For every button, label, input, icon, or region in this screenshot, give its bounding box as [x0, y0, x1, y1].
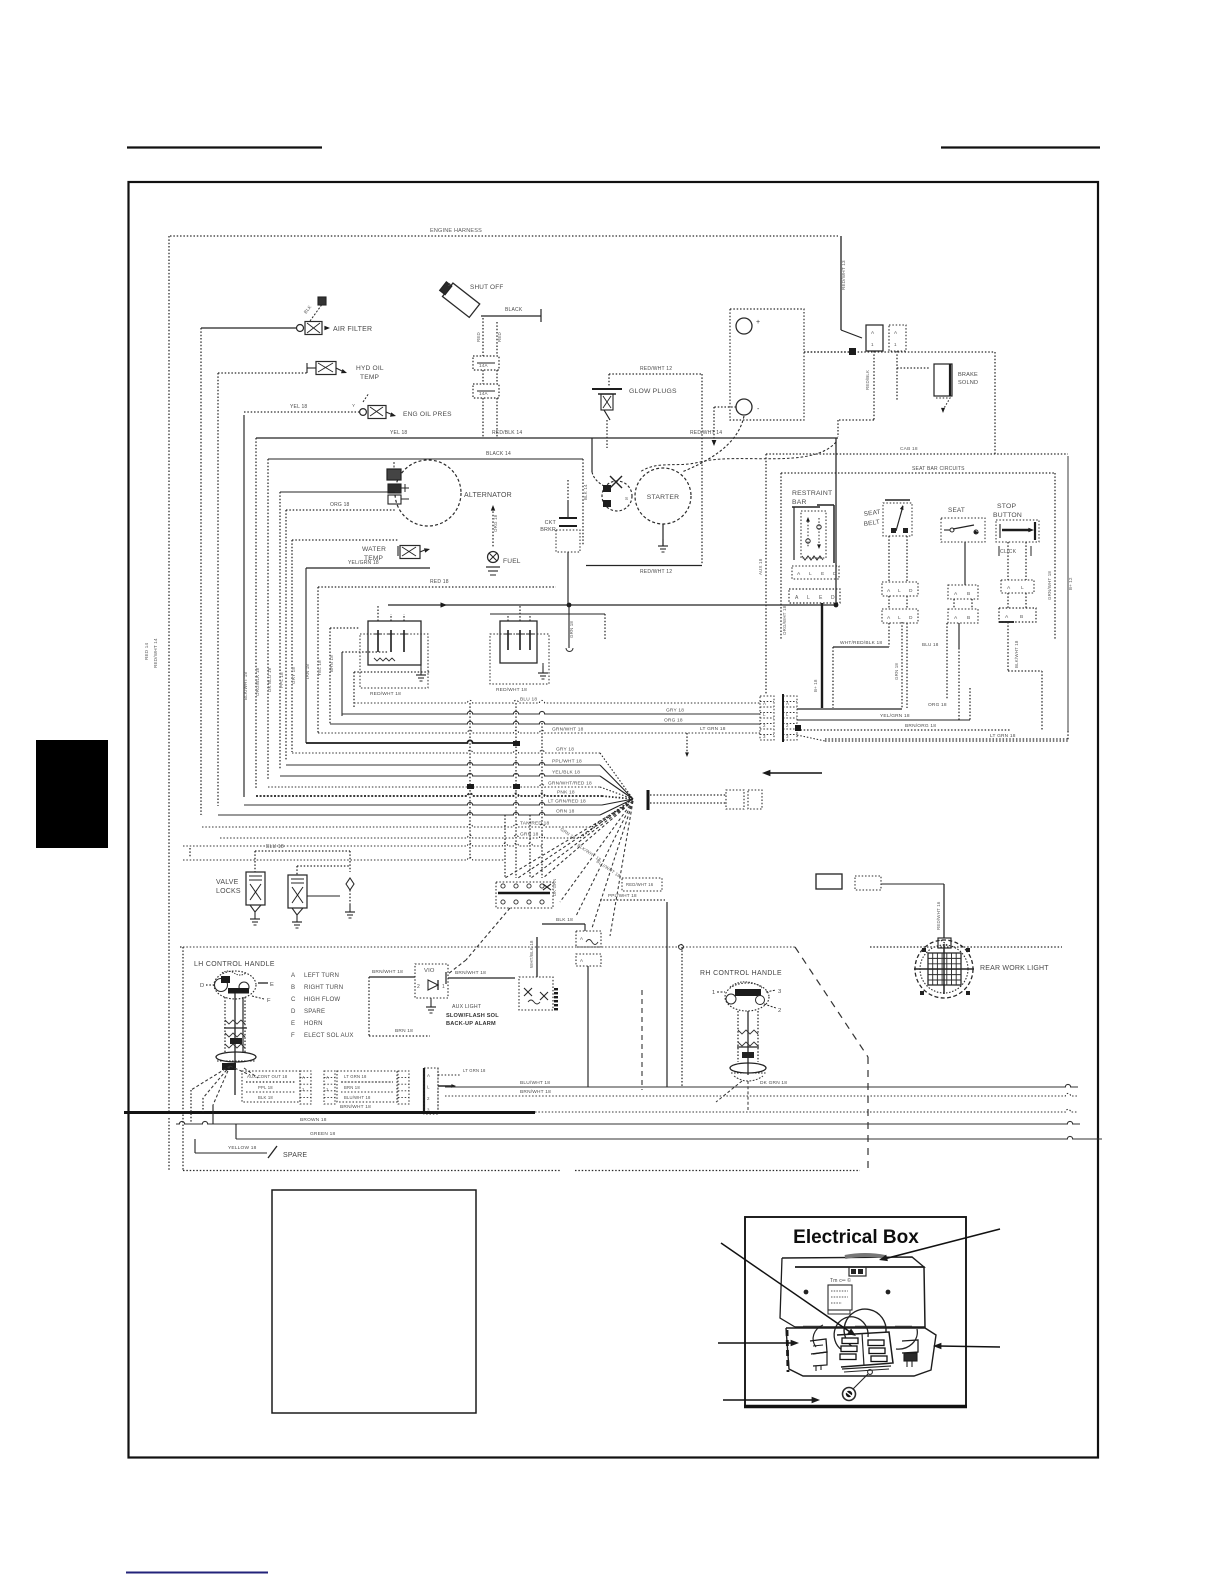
- svg-text:BRN/WHT 18: BRN/WHT 18: [372, 969, 403, 975]
- svg-text:B: B: [1020, 614, 1023, 620]
- wire: stop interlead: [1007, 593, 1009, 608]
- lamp: work light terminal: [938, 938, 951, 948]
- connector: LH plug P1: [300, 1071, 311, 1104]
- wire: harness bus row y743 ORG/BLK 14: [306, 740, 516, 743]
- note box: empty detail box: [272, 1190, 476, 1413]
- wire: water temp feed: [292, 539, 398, 541]
- joystick: LH control handle grip: [214, 971, 256, 999]
- svg-text:PPL/WHT 18: PPL/WHT 18: [608, 893, 637, 898]
- wire: brake solenoid drops: [873, 351, 875, 420]
- diode block: multi-diode assembly: [496, 882, 553, 908]
- svg-text:AUX CONT OUT 18: AUX CONT OUT 18: [247, 1074, 288, 1079]
- svg-text:D: D: [831, 595, 835, 601]
- svg-text:A: A: [954, 591, 958, 597]
- electrical box: lid latch connector: [849, 1267, 866, 1276]
- svg-text:L: L: [898, 615, 901, 621]
- svg-text:BRN 18: BRN 18: [329, 655, 334, 672]
- battery: negative terminal: [736, 399, 752, 415]
- svg-text:SHUT OFF: SHUT OFF: [470, 284, 503, 291]
- wire: row 860 dotted: [183, 857, 505, 860]
- svg-text:F: F: [267, 998, 271, 1004]
- svg-text:B: B: [967, 591, 970, 597]
- lamp: work light corner studs: [922, 948, 926, 952]
- svg-text:ELECT SOL AUX: ELECT SOL AUX: [304, 1032, 354, 1039]
- svg-text:DK GRN 18: DK GRN 18: [760, 1080, 787, 1086]
- svg-text:BRN/WHT 18: BRN/WHT 18: [340, 1104, 371, 1110]
- svg-text:PPL 18: PPL 18: [279, 672, 284, 688]
- connector: LH plug P2 ladder: [324, 1071, 335, 1104]
- svg-text:2: 2: [786, 723, 789, 728]
- svg-text:BRN 18: BRN 18: [395, 1028, 413, 1034]
- sender: FUEL level sender: [492, 508, 494, 548]
- arrow: harness location pointer: [766, 772, 822, 774]
- svg-text:RED/WHT 16: RED/WHT 16: [936, 901, 941, 930]
- wire: bus corner turn x342: [341, 652, 343, 716]
- svg-text:GRY 18: GRY 18: [556, 747, 574, 753]
- wire: VIO output BRN/WHT 18: [448, 977, 515, 979]
- wire: secondary run: [490, 613, 605, 615]
- wire: RH handle pin A tick: [445, 972, 447, 984]
- svg-text:SEAT BAR CIRCUITS: SEAT BAR CIRCUITS: [912, 466, 965, 472]
- connector: LH junction block: [337, 1071, 397, 1102]
- wire: seat belt interlead: [888, 596, 890, 609]
- switch: HYD OIL TEMP switch: [307, 367, 316, 369]
- svg-text:L: L: [898, 588, 901, 594]
- wire: harness bus row y714 GRY 18: [342, 711, 760, 714]
- wire: corner drop x470: [469, 837, 471, 860]
- wire: RH handle harness leads: [716, 1081, 742, 1102]
- svg-text:1: 1: [302, 1087, 305, 1092]
- connector: stop button plug 1: [1001, 580, 1034, 593]
- svg-text:GRN 18: GRN 18: [894, 663, 899, 680]
- svg-text:A: A: [427, 1073, 430, 1078]
- svg-text:TEMP: TEMP: [360, 374, 380, 381]
- svg-text:A: A: [887, 588, 891, 594]
- svg-text:14A: 14A: [479, 391, 489, 396]
- svg-text:B+ 18: B+ 18: [813, 679, 818, 692]
- wire: harness bus row y776 YEL/BLK 18: [280, 773, 600, 776]
- svg-text:L: L: [809, 571, 812, 577]
- arrow: pointer to lid latch: [884, 1229, 1000, 1259]
- wire: diode box feed: [536, 937, 538, 977]
- wire: relay K1 coil feeds: [377, 605, 379, 621]
- svg-text:BLK 18: BLK 18: [258, 1095, 273, 1100]
- svg-text:YEL 18: YEL 18: [390, 430, 407, 436]
- svg-text:1: 1: [871, 342, 874, 347]
- starter: solenoid: [602, 481, 632, 511]
- page border frame: [129, 182, 1099, 1458]
- wire: harness bus row y787 GRN/WHT/RED 18: [268, 784, 600, 787]
- svg-text:1: 1: [894, 342, 897, 347]
- svg-text:FUEL: FUEL: [503, 558, 521, 565]
- wire: valve lock sense line: [349, 851, 351, 872]
- wire: main B+ distribution run: [388, 604, 836, 606]
- electrical box: hinge strip: [803, 1326, 820, 1329]
- alternator: ALTERNATOR: [395, 460, 461, 526]
- ground: starter ground: [662, 524, 664, 546]
- wire: seat drop to YEL/GRN: [969, 688, 971, 720]
- svg-text:GRY 18: GRY 18: [291, 667, 296, 684]
- svg-text:E: E: [821, 571, 824, 577]
- svg-text:3: 3: [763, 734, 766, 739]
- joystick: RH control handle grip: [725, 983, 769, 1011]
- svg-text:BLU 18: BLU 18: [922, 642, 939, 647]
- svg-text:GREEN 18: GREEN 18: [310, 1131, 335, 1137]
- joystick: LH stem: [224, 997, 226, 1053]
- relay: glow plug relay K1: [368, 621, 421, 665]
- wire: row y1124 BROWN 18: [176, 1121, 1080, 1124]
- svg-text:+: +: [756, 319, 760, 326]
- connector: LH aux outlet block: [242, 1071, 300, 1102]
- wire: lower fan diagonals from accessory area: [505, 801, 633, 878]
- svg-text:2: 2: [448, 282, 451, 287]
- connector: seat plug 1: [948, 585, 978, 599]
- svg-text:BRAKE: BRAKE: [958, 372, 978, 378]
- svg-text:B+ 12: B+ 12: [1068, 577, 1073, 590]
- connector: horn connector lower: [576, 954, 601, 966]
- svg-text:A: A: [1005, 614, 1009, 620]
- wire: B+ feed into seat box: [835, 438, 837, 605]
- svg-text:TAN/RED 18: TAN/RED 18: [520, 821, 549, 827]
- wire: air filter feed: [201, 327, 296, 329]
- wire: top-left header rule: [127, 146, 322, 148]
- svg-text:RED/WHT 16: RED/WHT 16: [626, 882, 654, 887]
- svg-text:RED/BLK: RED/BLK: [865, 370, 870, 390]
- svg-text:ALTERNATOR: ALTERNATOR: [464, 492, 512, 499]
- connector: restraint bar plug 2: [789, 589, 840, 603]
- svg-text:RESTRAINT: RESTRAINT: [792, 490, 832, 497]
- svg-text:BRN/WHT 18: BRN/WHT 18: [455, 970, 486, 976]
- svg-text:STARTER: STARTER: [647, 494, 680, 501]
- wire: seat belt outputs: [888, 623, 890, 647]
- wire: row 846 dotted: [183, 843, 543, 846]
- connector: horn connector: [576, 931, 601, 947]
- svg-text:BROWN 18: BROWN 18: [300, 1117, 327, 1123]
- svg-text:A: A: [763, 701, 766, 706]
- svg-text:YEL 18: YEL 18: [290, 404, 307, 410]
- svg-text:BLK/WHT 18: BLK/WHT 18: [243, 672, 248, 700]
- electrical box: relay plug left: [810, 1339, 827, 1354]
- wire: seat outputs: [958, 623, 960, 648]
- fuse: F1 fuse link: [473, 356, 499, 370]
- svg-text:BRN/ORG 18: BRN/ORG 18: [905, 723, 936, 729]
- connector: accessory tap RED/WHT: [622, 878, 662, 891]
- svg-text:BLK 14: BLK 14: [583, 484, 588, 500]
- svg-text:GRN/WHT/RED 18: GRN/WHT/RED 18: [548, 781, 592, 787]
- battery: positive terminal: [736, 318, 752, 334]
- electrical box: ground screw and lead: [868, 1370, 873, 1375]
- svg-text:BLU 18: BLU 18: [520, 697, 537, 703]
- wire: air filter drop to bus: [200, 328, 202, 815]
- left margin section tab (solid black): [36, 740, 108, 848]
- wire: seat bar circuits inner box: [781, 472, 1055, 474]
- wire: spare lead YELLOW 18: [195, 1152, 267, 1154]
- electrical box: fuse block: [837, 1332, 893, 1367]
- wire: stop button leads: [1007, 542, 1009, 580]
- svg-text:AUX 18: AUX 18: [758, 558, 763, 575]
- ground: VIO module ground: [430, 998, 432, 1002]
- arrow: pointer to right plug: [938, 1346, 1000, 1347]
- wire: engine harness right vertical RED/WHT: [840, 236, 842, 330]
- wire: horn ground drop: [587, 966, 589, 1087]
- svg-text:Y: Y: [352, 403, 355, 408]
- arrow: pointer to left plug: [718, 1342, 794, 1344]
- node: C2 pin junction: [795, 725, 801, 731]
- wire: stop button outputs: [1007, 622, 1009, 671]
- svg-text:ENGINE HARNESS: ENGINE HARNESS: [430, 228, 482, 234]
- svg-text:DK BLU 18: DK BLU 18: [267, 667, 272, 692]
- svg-text:ORG/BLK 18: ORG/BLK 18: [255, 667, 260, 696]
- inset: Electrical Box frame: [745, 1217, 966, 1406]
- wire: fuse drops to B+ line: [482, 398, 484, 438]
- solenoid: FUEL SHUT OFF: [438, 279, 480, 317]
- battery: battery box: [730, 309, 804, 420]
- wire: fan convergence into main connector: [600, 753, 633, 799]
- diode: VIO diode module: [415, 964, 448, 998]
- connector: engine/cab bulkhead plug A: [866, 325, 883, 351]
- svg-text:2: 2: [417, 984, 420, 990]
- svg-text:BACK-UP ALARM: BACK-UP ALARM: [446, 1021, 496, 1027]
- svg-text:A: A: [580, 936, 583, 941]
- connector: seat belt plug 1: [882, 582, 918, 596]
- wire: hyd oil temp feed: [218, 372, 307, 374]
- electrical box: lid screws: [804, 1290, 809, 1295]
- wire: engine harness boundary left: [168, 236, 170, 1112]
- wire: starter B+ vertical: [591, 438, 593, 472]
- svg-text:RED/BLK 14: RED/BLK 14: [492, 430, 522, 436]
- wire: bus corner turn x354: [353, 672, 355, 707]
- connector: seat belt plug 2: [882, 609, 918, 623]
- wire: glow box left edge: [608, 374, 610, 387]
- svg-text:1: 1: [712, 990, 715, 996]
- svg-text:HIGH FLOW: HIGH FLOW: [304, 996, 340, 1003]
- wire: fuel gauge dotted feed: [318, 586, 556, 588]
- svg-text:A: A: [797, 571, 801, 577]
- svg-text:LT GRN/RED 18: LT GRN/RED 18: [548, 799, 586, 805]
- svg-text:ORG 18: ORG 18: [330, 502, 350, 508]
- wire: alternator black right drop: [582, 459, 584, 545]
- label: grip button F: [252, 996, 264, 999]
- wire: diode block output diagonal: [466, 908, 510, 960]
- svg-text:RED/WHT 18: RED/WHT 18: [496, 687, 527, 693]
- wire: fuse interconnect: [482, 370, 484, 384]
- wire: YEL/GRN lower feed: [306, 567, 430, 569]
- solenoid: BRAKE solenoid: [934, 364, 952, 396]
- svg-text:D: D: [291, 1008, 296, 1015]
- wire: harness bus row y838 GRN 18: [220, 835, 580, 838]
- svg-text:LT GRN 18: LT GRN 18: [344, 1074, 367, 1079]
- svg-text:2: 2: [427, 1096, 430, 1101]
- wire: shut off down leads RED/RED: [482, 318, 484, 356]
- svg-text:SPARE: SPARE: [283, 1152, 307, 1159]
- node: splice at battery feed: [849, 348, 856, 355]
- wire: RH riser solid: [666, 902, 668, 1087]
- wire: C2 output LT GRN 18: [825, 738, 1068, 740]
- wire: heavy cab feed BRN/WHT 18: [124, 1111, 535, 1114]
- wire: glow plug box top RED/WHT: [609, 373, 702, 375]
- connector: restraint bar plug 1: [792, 566, 839, 579]
- wire: harness bus row y703 BLU 18: [354, 700, 760, 703]
- node: junction at seat box feed: [834, 603, 839, 608]
- wire: engine harness boundary top (ENGINE HARNESS): [170, 235, 838, 237]
- diode: flasher diode box D2: [519, 977, 553, 1010]
- wire: aux module dashed boundary: [368, 977, 370, 1036]
- svg-text:LT GRN 18: LT GRN 18: [990, 733, 1016, 739]
- svg-text:3: 3: [778, 989, 781, 995]
- svg-text:LT GRN 18: LT GRN 18: [463, 1068, 486, 1073]
- wire: harness bus row y827 TAN/RED 18: [202, 824, 592, 827]
- wire: RH pocket diagonal boundary: [795, 947, 868, 1057]
- svg-text:ORG 18: ORG 18: [928, 702, 947, 708]
- connector: engine/cab bulkhead plug B: [889, 325, 906, 351]
- svg-text:RED/WHT 12: RED/WHT 12: [640, 569, 672, 575]
- svg-text:WHT/RED/BLK 18: WHT/RED/BLK 18: [840, 640, 882, 646]
- label: grip button E: [258, 982, 268, 984]
- switch: AIR FILTER condition switch: [297, 325, 304, 332]
- svg-text:SPARE: SPARE: [304, 1008, 325, 1015]
- svg-text:LOCKS: LOCKS: [216, 888, 241, 895]
- svg-text:REAR WORK LIGHT: REAR WORK LIGHT: [980, 965, 1049, 972]
- wire: battery cable curve to starter: [682, 416, 744, 472]
- wire: harness bus row y765 PPL/WHT 18: [286, 762, 600, 765]
- svg-text:A: A: [1007, 585, 1011, 591]
- svg-text:WHT/BLK 18: WHT/BLK 18: [529, 940, 534, 968]
- connector: junction plug J2: [748, 790, 762, 809]
- wire: accessory dotted run y947 left part: [180, 946, 183, 948]
- svg-text:A: A: [786, 701, 789, 706]
- svg-text:ENG OIL PRES: ENG OIL PRES: [403, 411, 452, 418]
- svg-text:L: L: [786, 712, 789, 717]
- joystick: LH base flange: [216, 1052, 256, 1062]
- joystick: RH base flange: [730, 1063, 766, 1073]
- arrow: pointer to fuse block (long diagonal): [721, 1243, 853, 1334]
- node: junction on cab harness top: [679, 945, 684, 950]
- connector: LH plug P3 ladder: [398, 1071, 409, 1104]
- joystick: RH stem: [737, 1011, 739, 1062]
- wire: alternator BLACK top wire: [268, 458, 583, 460]
- wire: seat interlead: [953, 599, 955, 609]
- wire: top-right header rule: [941, 146, 1100, 148]
- svg-text:BLU/WHT 18: BLU/WHT 18: [520, 1080, 550, 1086]
- svg-text:RED/WHT 12: RED/WHT 12: [640, 366, 672, 372]
- svg-text:LT GRN 18: LT GRN 18: [700, 726, 726, 732]
- wire: seat switch lead: [964, 542, 966, 585]
- svg-text:LEFT TURN: LEFT TURN: [304, 972, 339, 979]
- wire: harness bus row y753 GRY 18: [292, 750, 600, 753]
- svg-text:ORG 18: ORG 18: [493, 514, 498, 532]
- switch: ENG OIL PRES switch: [360, 409, 367, 416]
- wire: battery positive to cab feed: [804, 351, 995, 353]
- svg-text:BLACK: BLACK: [505, 307, 523, 313]
- wire: work light feed RED/WHT 16: [881, 883, 944, 885]
- svg-text:E: E: [819, 595, 823, 601]
- wire: harness bus row y724 ORG 18: [330, 721, 760, 724]
- svg-text:A: A: [326, 1075, 329, 1080]
- connector: alternator exciter plug: [387, 469, 401, 480]
- svg-text:SEAT: SEAT: [948, 507, 965, 514]
- svg-text:RED 14: RED 14: [144, 642, 149, 660]
- lamp: REAR WORK LIGHT: [914, 940, 974, 998]
- connector: accessory connector: [855, 876, 881, 890]
- svg-text:PNK 18: PNK 18: [557, 790, 575, 796]
- wire: RH pocket right boundary: [867, 1057, 869, 1170]
- svg-text:YEL/BLK 18: YEL/BLK 18: [552, 770, 580, 776]
- wire: bulkhead outputs: [438, 1074, 460, 1076]
- wire: GRN 18A drop: [901, 622, 903, 709]
- svg-text:RIGHT TURN: RIGHT TURN: [304, 984, 343, 991]
- svg-text:L: L: [1021, 585, 1024, 591]
- node: junction at breaker: [567, 603, 572, 608]
- glow plug: GLOW PLUGS: [592, 388, 622, 390]
- svg-text:WATER: WATER: [362, 546, 386, 553]
- label: RH grip button 3: [766, 990, 776, 992]
- wire: bottom-left footer rule: [126, 1572, 268, 1574]
- electrical box: relay plug right: [902, 1340, 918, 1353]
- wire: splice to junction plugs: [650, 794, 726, 796]
- svg-text:BRN 18: BRN 18: [344, 1085, 360, 1090]
- svg-text:YEL 18: YEL 18: [317, 660, 322, 676]
- electrical box: decal label: [828, 1285, 852, 1310]
- node: arrow junction on B+ run: [441, 602, 448, 607]
- wire: eng oil pres feed, YEL 18: [244, 411, 360, 413]
- connector: main harness connector C1 (8-pin): [760, 696, 774, 740]
- svg-text:L: L: [763, 712, 766, 717]
- svg-text:1: 1: [442, 984, 445, 990]
- wire: bus corner turn x330: [329, 628, 331, 725]
- svg-text:BLK 18: BLK 18: [556, 917, 573, 923]
- wire: LT GRN 18 riser: [686, 733, 688, 752]
- wire: row y1087 to RH area: [445, 1084, 1078, 1087]
- connector: main harness splice bar: [647, 790, 650, 810]
- arrow: pointer to ground screw: [723, 1399, 814, 1401]
- wire: cab harness boundary top: [183, 944, 795, 947]
- svg-text:3: 3: [786, 734, 789, 739]
- ground: relay K2 ground: [542, 663, 544, 668]
- svg-text:A: A: [795, 595, 799, 601]
- svg-text:BLU 18: BLU 18: [266, 844, 284, 850]
- wire: seat bar circuits outer box: [766, 453, 1068, 455]
- wire: eng oil pres drop to bus: [243, 415, 245, 797]
- connector: main harness connector C2 (8-pin): [783, 696, 797, 740]
- svg-text:A: A: [580, 958, 583, 963]
- svg-text:HORN: HORN: [304, 1020, 323, 1027]
- svg-text:ORN 18: ORN 18: [556, 809, 575, 815]
- svg-text:RED/WHT 18: RED/WHT 18: [370, 691, 401, 697]
- svg-text:RED/WHT 14: RED/WHT 14: [690, 430, 722, 436]
- wire: shut off BLACK stub: [481, 315, 541, 317]
- electrical box: wire loop coil: [844, 1309, 886, 1349]
- svg-text:HYD OIL: HYD OIL: [356, 365, 384, 372]
- wire: GRN 18 drop from junction: [568, 605, 570, 648]
- svg-text:RED: RED: [476, 332, 481, 342]
- svg-text:BUTTON: BUTTON: [993, 512, 1022, 519]
- svg-text:D: D: [200, 983, 204, 989]
- svg-text:BAR: BAR: [792, 499, 807, 506]
- wire: battery negative lead: [714, 406, 736, 408]
- wire: left risers to cab rows: [190, 1090, 192, 1124]
- svg-text:1: 1: [326, 1087, 329, 1092]
- wire: restraint bar output (heavy): [821, 603, 823, 708]
- svg-text:D: D: [909, 588, 913, 594]
- wire: row y1096 to RH area: [445, 1093, 1078, 1096]
- svg-text:BLU/WHT 18: BLU/WHT 18: [344, 1095, 371, 1100]
- label: RH grip button 2: [764, 1004, 776, 1008]
- wire: glow box right edge: [701, 374, 703, 565]
- wire: seat belt WHT/RED/BLK jumper: [833, 646, 889, 648]
- svg-text:BLK/WHT 18: BLK/WHT 18: [1014, 640, 1019, 668]
- electrical box: lid (3D): [795, 1267, 925, 1327]
- wire: RH riser dotted: [681, 947, 683, 1087]
